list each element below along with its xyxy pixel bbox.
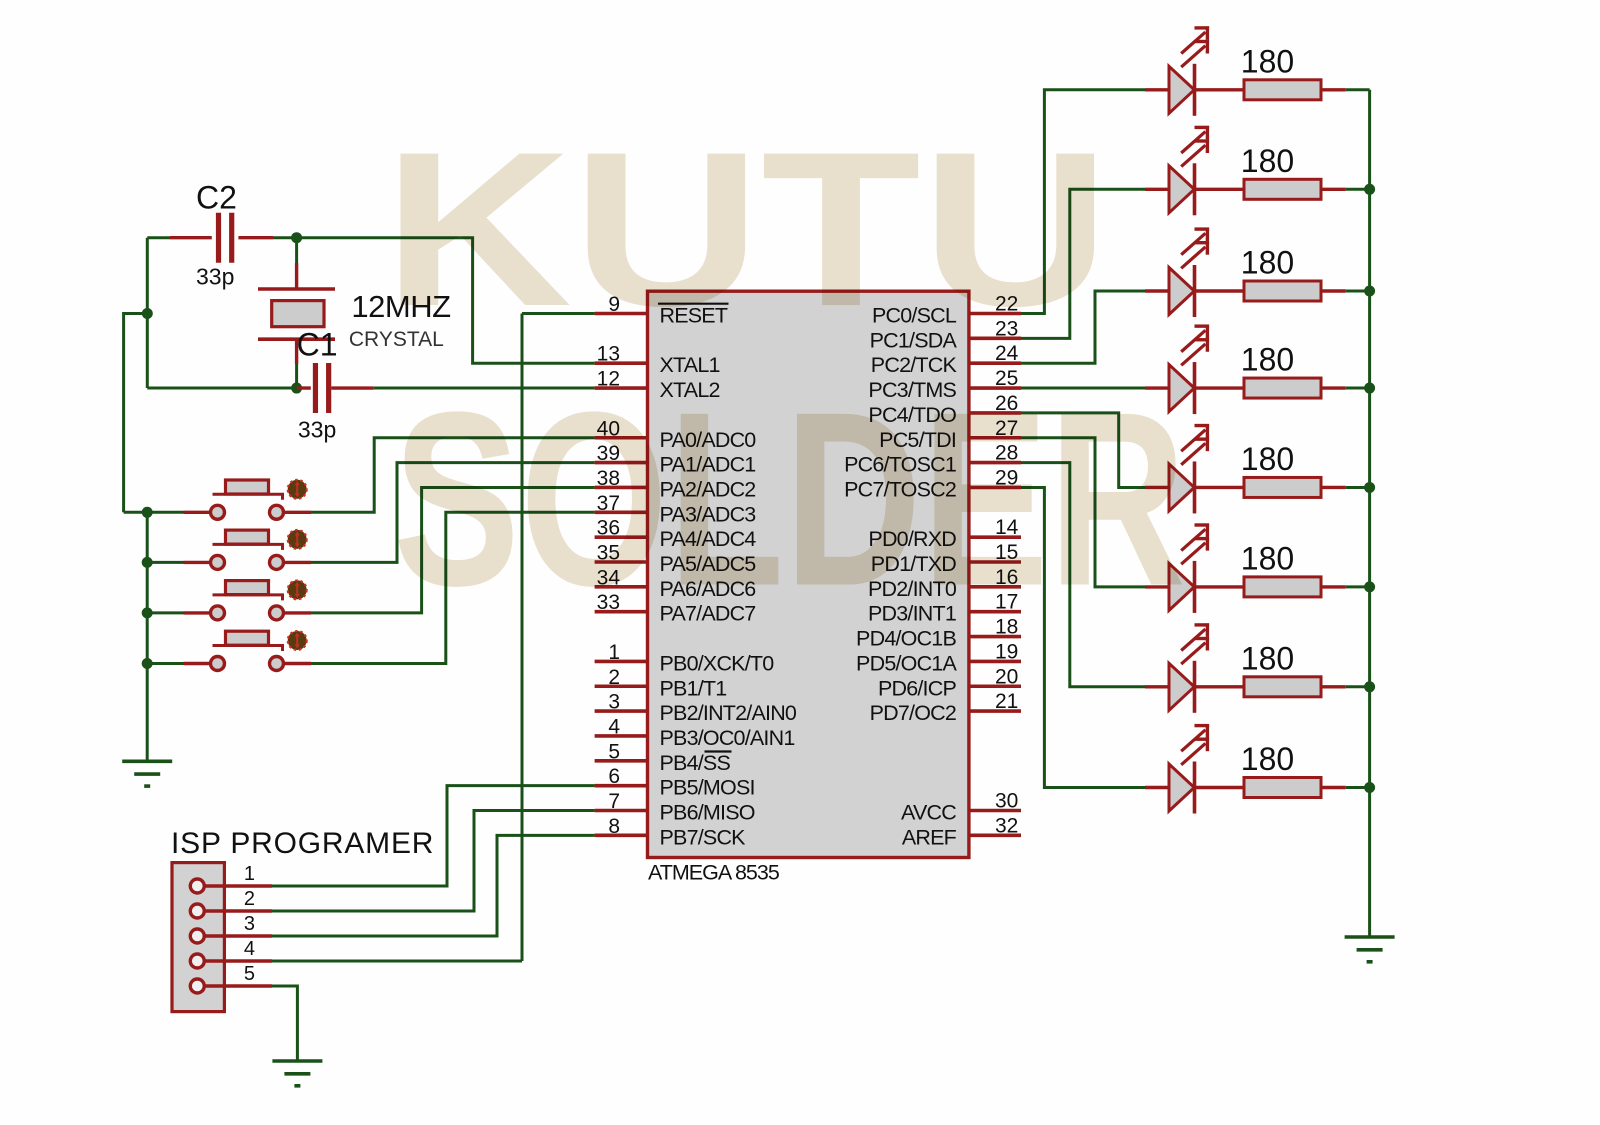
capacitor C1 <box>315 363 328 413</box>
wire ISP pin 1 to PB5 <box>272 786 595 886</box>
button SW1 cap <box>226 480 269 494</box>
wire button SW3 row from rail <box>147 611 183 614</box>
wire button SW2 row from rail <box>147 561 183 564</box>
junction rail row 7 <box>1364 681 1375 692</box>
wire R6 to rail <box>1321 585 1346 588</box>
wire button SW1 right stub <box>283 511 311 514</box>
LED D1 arrows <box>1181 26 1209 67</box>
wire C2 right red stub <box>238 236 273 239</box>
junction C2/crystal <box>291 232 302 243</box>
IC pin 24 (PC2/TCK) <box>871 342 1021 377</box>
IC pin 15 (PD1/TXD) <box>871 541 1021 576</box>
IC pin 39 (PA1/ADC1) <box>595 442 756 477</box>
button SW1 left terminal <box>211 505 225 519</box>
wire LED D7 to R7 <box>1195 685 1245 688</box>
IC pin 18 (PD4/OC1B) <box>856 616 1021 651</box>
wire R8 to rail <box>1321 786 1346 789</box>
junction button rail row 2 <box>142 557 153 568</box>
IC pin 8 (PB7/SCK) <box>595 815 747 850</box>
crystal X1 body <box>272 301 324 327</box>
wire button SW4 right stub <box>283 662 311 665</box>
wire pin 27 to LED D6 <box>1021 438 1145 587</box>
wire ISP pin 2 stub <box>204 909 272 912</box>
IC pin 33 (PA7/ADC7) <box>595 591 756 626</box>
junction rail row 2 <box>1364 184 1375 195</box>
resistor R7 (180) <box>1244 677 1321 697</box>
IC pin 9 (RESET) <box>595 293 729 328</box>
wire LED D3 anode stub <box>1145 289 1170 292</box>
IC pin 26 (PC4/TDO) <box>868 392 1021 427</box>
IC pin 27 (PC5/TDI) <box>879 417 1021 452</box>
button SW4 right terminal <box>270 657 284 671</box>
IC U1 ATMEGA 8535 body <box>648 291 969 857</box>
wire LED D8 anode stub <box>1145 786 1170 789</box>
junction rail row 6 <box>1364 581 1375 592</box>
button SW1 actuator marker <box>288 480 307 499</box>
wire LED D7 anode stub <box>1145 685 1170 688</box>
wire LED D1 to R1 <box>1195 88 1245 91</box>
IC pin 13 (XTAL1) <box>595 343 720 378</box>
wire button SW1 to PA0 <box>311 438 595 513</box>
wire C1 right red stub <box>331 386 373 389</box>
IC pin 37 (PA3/ADC3) <box>595 492 757 527</box>
resistor R8 (180) <box>1244 778 1321 798</box>
wire R2 to rail <box>1321 188 1346 191</box>
wire pin 25 to LED D4 <box>1021 387 1145 390</box>
junction C1/crystal <box>291 383 302 394</box>
wire pin 24 to LED D3 <box>1021 291 1145 363</box>
wire LED D2 to R2 <box>1195 188 1245 191</box>
IC pin 30 (AVCC) <box>901 790 1021 825</box>
wire button SW4 to PA3 <box>311 512 595 663</box>
svg-text:KUTU: KUTU <box>383 106 1110 352</box>
crystal X1 bottom plate <box>258 337 335 341</box>
IC pin 7 (PB6/MISO) <box>595 790 755 825</box>
IC pin 2 (PB1/T1) <box>595 666 727 701</box>
LED D2 arrows <box>1181 126 1209 167</box>
junction button rail row 4 <box>142 658 153 669</box>
LED D8 arrows <box>1181 724 1209 765</box>
button SW2 left terminal <box>211 555 225 569</box>
wire button SW3 left stub <box>184 611 211 614</box>
resistor R2 (180) <box>1244 179 1321 199</box>
svg-text:SOLDER: SOLDER <box>393 360 1186 638</box>
resistor R1 (180) <box>1244 80 1321 100</box>
resistor R6 (180) <box>1244 577 1321 597</box>
wire button SW4 left stub <box>184 662 211 665</box>
IC pin 25 (PC3/TMS) <box>868 367 1021 402</box>
wire ISP pin 4 stub <box>204 959 272 962</box>
IC pin 29 (PC7/TOSC2) <box>844 466 1021 501</box>
ISP J1 pin 2 pad <box>190 904 204 918</box>
LED D6 arrows <box>1181 524 1209 565</box>
wire LED D4 to R4 <box>1195 386 1245 389</box>
button SW2 right terminal <box>270 555 284 569</box>
IC pin 16 (PD2/INT0) <box>868 566 1021 601</box>
wire button SW3 right stub <box>283 611 311 614</box>
IC pin 20 (PD6/ICP) <box>878 665 1021 700</box>
wire ISP pin 3 stub <box>204 934 272 937</box>
wire ISP pin 3 to PB7 <box>272 835 595 936</box>
wire R5 to rail green <box>1346 486 1370 489</box>
wire R8 to rail green <box>1346 786 1370 789</box>
LED D3 arrows <box>1181 228 1209 269</box>
junction rail row 3 <box>1364 286 1375 297</box>
wire C1 to XTAL2 pin <box>374 387 595 390</box>
button SW3 right terminal <box>270 606 284 620</box>
ISP J1 pin 5 pad <box>190 979 204 993</box>
IC pin 3 (PB2/INT2/AIN0) <box>595 691 797 726</box>
IC pin 4 (PB3/OC0/AIN1) <box>595 715 795 750</box>
wire LED D3 to R3 <box>1195 289 1245 292</box>
wire R7 to rail green <box>1346 685 1370 688</box>
button SW2 cap <box>226 530 269 544</box>
wire ISP pin 1 stub <box>204 884 272 887</box>
ISP J1 pin 1 pad <box>190 879 204 893</box>
wire crystal top pin <box>295 263 298 289</box>
LED D7 arrows <box>1181 623 1209 664</box>
IC pin 34 (PA6/ADC6) <box>595 566 757 601</box>
wire LED D2 anode stub <box>1145 188 1170 191</box>
junction rail row 4 <box>1364 383 1375 394</box>
IC pin 14 (PD0/RXD) <box>868 516 1021 551</box>
wire left crystal loop vertical <box>146 238 149 388</box>
IC pin 32 (AREF) <box>902 814 1021 849</box>
ISP J1 pin 3 pad <box>190 929 204 943</box>
wire ISP pin 5 stub <box>204 984 272 987</box>
wire R3 to rail <box>1321 289 1346 292</box>
junction button rail row 3 <box>142 607 153 618</box>
wire R6 to rail green <box>1346 585 1370 588</box>
wire button SW2 left stub <box>184 561 211 564</box>
wire pin 22 to LED D1 <box>1021 90 1145 314</box>
wire ISP pin 2 to PB6 <box>272 811 595 912</box>
IC pin 35 (PA5/ADC5) <box>595 542 757 577</box>
junction rail row 8 <box>1364 782 1375 793</box>
wire LED D5 anode stub <box>1145 486 1170 489</box>
junction button rail row 1 <box>142 507 153 518</box>
button SW3 left terminal <box>211 606 225 620</box>
resistor R5 (180) <box>1244 477 1321 497</box>
IC pin 23 (PC1/SDA) <box>870 317 1021 352</box>
button SW4 cap <box>226 631 269 645</box>
LED D5 body <box>1169 461 1195 513</box>
LED D8 body <box>1169 762 1195 814</box>
IC pin 21 (PD7/OC2) <box>870 690 1021 725</box>
button SW3 bridge bar <box>213 595 283 601</box>
ISP header J1 body <box>172 863 224 1012</box>
button SW4 actuator marker <box>288 631 307 650</box>
resistor R4 (180) <box>1244 378 1321 398</box>
junction rail row 5 <box>1364 482 1375 493</box>
button SW4 left terminal <box>211 657 225 671</box>
IC pin 5 (PB4/SS) <box>595 740 732 775</box>
wire crystal to C1 junction <box>295 364 298 388</box>
resistor R3 (180) <box>1244 281 1321 301</box>
wire R3 to rail green <box>1346 290 1370 293</box>
ISP J1 pin 4 pad <box>190 954 204 968</box>
IC pin 1 (PB0/XCK/T0) <box>595 641 775 676</box>
ground (LED rail) <box>1345 937 1395 962</box>
LED D3 body <box>1169 265 1195 317</box>
LED D2 body <box>1169 163 1195 215</box>
capacitor C2 <box>219 213 232 263</box>
crystal X1 top plate <box>258 287 335 291</box>
button SW2 bridge bar <box>213 544 283 550</box>
wire button SW1 row from rail <box>124 511 184 514</box>
wire button ground rail <box>146 512 149 761</box>
wire ISP pin 5 to ground <box>272 986 297 1061</box>
button SW4 bridge bar <box>213 646 283 652</box>
wire C2 to XTAL1 corner <box>273 238 595 364</box>
IC pin 36 (PA4/ADC4) <box>595 517 757 552</box>
wire R7 to rail <box>1321 685 1346 688</box>
IC pin 17 (PD3/INT1) <box>868 591 1021 626</box>
IC pin 12 (XTAL2) <box>595 368 720 403</box>
wire C2 left red stub <box>170 236 212 239</box>
wire pin 28 to LED D7 <box>1021 463 1145 687</box>
wire button SW2 right stub <box>283 561 311 564</box>
wire ISP pin 4 to reset vertical <box>272 960 522 963</box>
wire button SW3 to PA2 <box>311 487 595 612</box>
wire pin 29 to LED D8 <box>1021 487 1145 787</box>
IC pin 40 (PA0/ADC0) <box>595 417 757 452</box>
wire R1 to rail <box>1321 88 1346 91</box>
button SW3 cap <box>226 581 269 595</box>
wire pin 23 to LED D2 <box>1021 189 1145 338</box>
wire button SW4 row from rail <box>147 662 183 665</box>
wire C2 left to corner <box>147 236 170 239</box>
wire reset vertical from ISP pin4 <box>521 314 524 962</box>
wire button SW2 to PA1 <box>311 463 595 563</box>
wire C1 left red stub <box>297 386 311 389</box>
wire R4 to rail <box>1321 386 1346 389</box>
button SW2 actuator marker <box>288 530 307 549</box>
wire pin 26 to LED D5 <box>1021 413 1145 488</box>
button SW1 right terminal <box>270 505 284 519</box>
button SW1 bridge bar <box>213 494 283 500</box>
button SW3 actuator marker <box>288 580 307 599</box>
ground (ISP) <box>272 1061 322 1086</box>
wire R2 to rail green <box>1346 188 1370 191</box>
wire LED D6 anode stub <box>1145 585 1170 588</box>
wire LED D8 to R8 <box>1195 786 1245 789</box>
wire C1 row left segment <box>147 387 296 390</box>
IC pin 19 (PD5/OC1A) <box>856 640 1021 675</box>
wire LED D6 to R6 <box>1195 585 1245 588</box>
LED D4 arrows <box>1181 325 1209 366</box>
wire junction down to crystal <box>295 238 298 263</box>
IC pin 6 (PB5/MOSI) <box>595 765 755 800</box>
IC pin 38 (PA2/ADC2) <box>595 467 756 502</box>
wire LED D4 anode stub <box>1145 386 1170 389</box>
LED D5 arrows <box>1181 424 1209 465</box>
LED D4 body <box>1169 362 1195 414</box>
LED D6 body <box>1169 561 1195 613</box>
wire branch to button rail <box>124 314 148 513</box>
ground (buttons) <box>122 761 172 786</box>
wire R4 to rail green <box>1346 387 1370 390</box>
wire LED D5 to R5 <box>1195 486 1245 489</box>
LED D7 body <box>1169 661 1195 713</box>
wire R5 to rail <box>1321 486 1346 489</box>
wire reset to IC <box>522 312 595 315</box>
wire LED D1 anode stub <box>1145 88 1170 91</box>
IC pin 28 (PC6/TOSC1) <box>844 442 1021 477</box>
wire crystal bottom pin <box>295 339 298 364</box>
wire LED ground rail <box>1368 90 1371 937</box>
IC pin 22 (PC0/SCL) <box>872 293 1021 328</box>
junction left vertical / reset branch <box>142 308 153 319</box>
wire button SW1 left stub <box>184 511 211 514</box>
wire R1 to rail green <box>1346 88 1370 91</box>
LED D1 body <box>1169 64 1195 116</box>
